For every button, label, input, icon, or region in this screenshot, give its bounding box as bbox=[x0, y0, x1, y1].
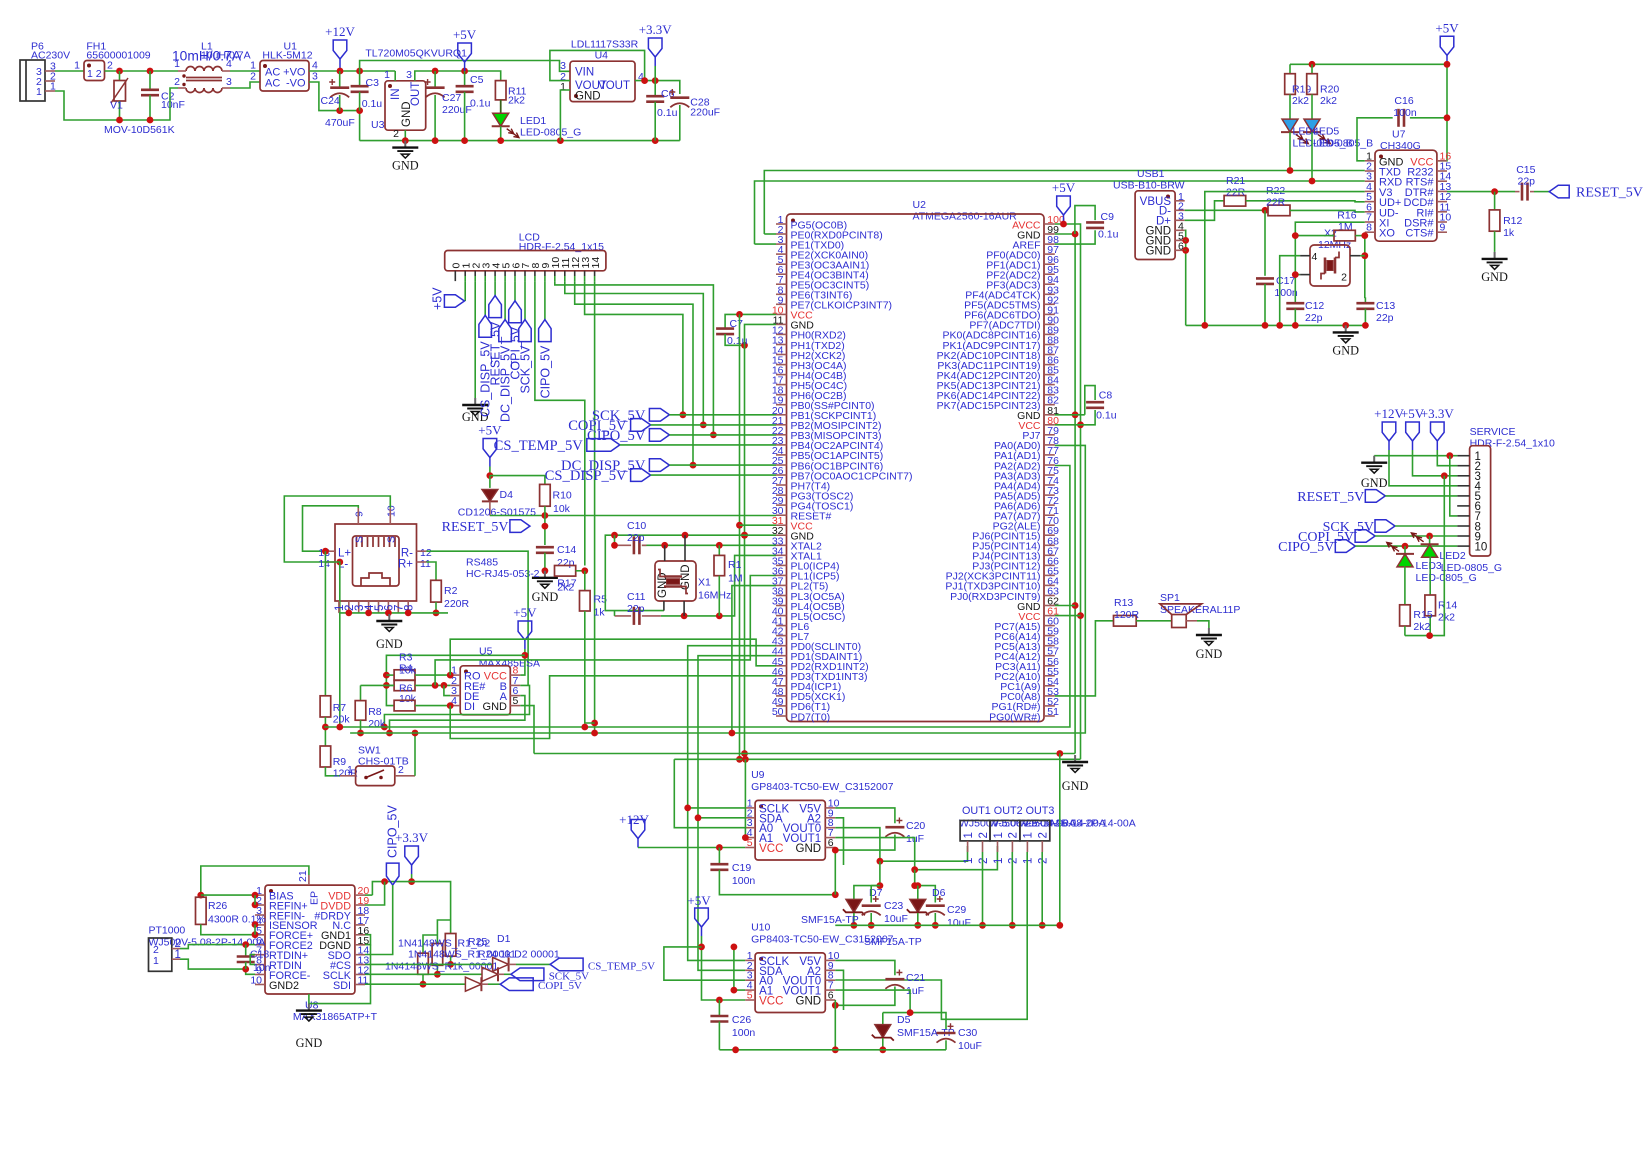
wire U9 A2 stub bbox=[835, 818, 843, 865]
capacitor C10 22p bbox=[633, 536, 636, 554]
fuse FH1 65600001009 bbox=[84, 61, 105, 81]
wire +5V to R10 bbox=[490, 476, 545, 485]
capacitor C17 100n bbox=[1264, 210, 1266, 275]
wire -VO to dc ground rail bbox=[309, 82, 360, 141]
capacitor C16 100n bbox=[1357, 118, 1393, 161]
svg-text:-VO: -VO bbox=[286, 78, 306, 90]
svg-text:GND: GND bbox=[1361, 476, 1388, 490]
wire R13 to SP1 bbox=[1136, 620, 1172, 622]
wire L1.3 to U1.2 bbox=[230, 82, 260, 88]
wire +3.3V to VDD DVDD bbox=[372, 882, 450, 934]
svg-text:2: 2 bbox=[1038, 858, 1050, 864]
wire VOUT0 to OUT1.1 bbox=[835, 828, 967, 862]
svg-text:C10: C10 bbox=[627, 520, 646, 532]
wire +5V to U10 VCC bbox=[702, 936, 746, 1000]
svg-text:R8: R8 bbox=[368, 706, 382, 718]
svg-text:100n: 100n bbox=[1393, 107, 1417, 119]
resistor R10 10k bbox=[540, 484, 551, 506]
svg-text:VCC: VCC bbox=[759, 996, 783, 1008]
wire L- down to bus bbox=[325, 562, 339, 727]
svg-text:GND: GND bbox=[1332, 343, 1359, 357]
svg-text:50: 50 bbox=[772, 706, 784, 718]
svg-text:10uF: 10uF bbox=[947, 917, 971, 929]
power flag +5V usb bbox=[1446, 55, 1448, 64]
svg-text:GND: GND bbox=[376, 637, 403, 651]
wire bus bottom PA0 bbox=[350, 445, 1085, 733]
flag CS_DISP_5V to PB7 bbox=[631, 469, 651, 482]
svg-text:C23: C23 bbox=[884, 900, 903, 912]
wire VOUT0 to D7/C23 bbox=[854, 861, 880, 899]
svg-text:C13: C13 bbox=[1376, 300, 1395, 312]
svg-text:1: 1 bbox=[175, 949, 181, 961]
svg-text:LED-0805_G: LED-0805_G bbox=[1416, 572, 1477, 584]
svg-text:LED-0805_B: LED-0805_B bbox=[1313, 138, 1373, 150]
wire RO route to MCU PD2 bbox=[450, 639, 776, 675]
wire service pin3 +5V bbox=[1413, 450, 1458, 476]
svg-text:3: 3 bbox=[406, 69, 412, 81]
wire P6.3 to FH1 bbox=[55, 70, 84, 72]
LED1 LED-0805_G bbox=[500, 100, 502, 114]
flag +5V lcd pin1 bbox=[464, 281, 466, 301]
svg-text:C11: C11 bbox=[627, 591, 646, 603]
svg-text:EP: EP bbox=[309, 891, 321, 905]
svg-text:HLK-5M12: HLK-5M12 bbox=[262, 50, 312, 62]
wire VCC vertical left bbox=[739, 314, 741, 759]
svg-text:X1: X1 bbox=[698, 577, 711, 589]
wire C15 to RESET_5V flag bbox=[1534, 191, 1549, 193]
wire lcd pin14 straight down to bus bbox=[594, 281, 596, 733]
wire +12V feed to U4 VIN bbox=[360, 61, 570, 72]
svg-text:100n: 100n bbox=[732, 875, 756, 887]
svg-text:U4: U4 bbox=[595, 50, 609, 62]
svg-text:+5V: +5V bbox=[1052, 180, 1076, 195]
flag CIPO_5V service bbox=[1335, 540, 1355, 553]
ground under R12 bbox=[1494, 252, 1496, 259]
crystal X1 body bbox=[655, 561, 696, 601]
svg-text:SERVICE: SERVICE bbox=[1470, 426, 1516, 438]
SERVICE pin 2 bbox=[1457, 465, 1469, 467]
svg-text:VCC: VCC bbox=[759, 843, 783, 855]
svg-text:2k2: 2k2 bbox=[557, 582, 574, 594]
svg-text:R21: R21 bbox=[1226, 175, 1245, 187]
svg-text:C5: C5 bbox=[470, 74, 484, 86]
svg-text:R16: R16 bbox=[1337, 210, 1356, 222]
RJ45 bottom pins 1-8 bbox=[338, 601, 340, 613]
resistor R19 2k2 bbox=[1289, 64, 1291, 73]
svg-text:SDI: SDI bbox=[333, 980, 351, 992]
svg-text:20k: 20k bbox=[368, 718, 386, 730]
wire +12V to U9 VCC bbox=[638, 847, 745, 849]
power flag +12V u9 bbox=[637, 839, 639, 848]
svg-text:+5V: +5V bbox=[431, 287, 445, 310]
svg-text:1: 1 bbox=[1023, 858, 1035, 864]
svg-text:GND: GND bbox=[1481, 270, 1508, 284]
LED2 green bbox=[1429, 536, 1431, 544]
svg-text:GP8403-TC50-EW_C3152007: GP8403-TC50-EW_C3152007 bbox=[751, 781, 894, 793]
svg-text:CIPO_5V: CIPO_5V bbox=[1278, 540, 1334, 555]
resistor R7 20k bbox=[320, 696, 331, 717]
wire +5V rail to LEDs bbox=[1437, 64, 1447, 161]
svg-text:2k2: 2k2 bbox=[1413, 621, 1430, 633]
svg-text:3: 3 bbox=[312, 71, 318, 83]
capacitor C24 470uF bbox=[339, 71, 341, 87]
gnd bus u9 cluster bbox=[835, 924, 1060, 926]
wire RE/DE route to MCU PL1 bbox=[435, 576, 776, 686]
svg-text:14: 14 bbox=[318, 558, 330, 570]
resistor R11 2k2 bbox=[495, 81, 506, 100]
svg-text:1M: 1M bbox=[728, 573, 743, 585]
wire LED4 to TXD net bbox=[1289, 132, 1291, 170]
wire GND pin62 bbox=[1055, 605, 1075, 607]
usb ground bus bbox=[1186, 324, 1366, 326]
svg-text:0.1u: 0.1u bbox=[1096, 410, 1117, 422]
capacitor C9 0.1u bbox=[1075, 206, 1095, 234]
wire VCC pin31 bbox=[740, 524, 777, 526]
svg-text:R12: R12 bbox=[1503, 215, 1522, 227]
svg-text:22R: 22R bbox=[1266, 197, 1286, 209]
ground service bbox=[1374, 455, 1457, 457]
wire U10 V5V to C21 bbox=[835, 960, 895, 975]
resistor R14 2k2 bbox=[1429, 557, 1432, 595]
wire R12 to gnd bbox=[1494, 231, 1496, 252]
svg-text:C16: C16 bbox=[1394, 95, 1413, 107]
svg-text:4: 4 bbox=[226, 58, 232, 70]
resistor R9 120R bbox=[320, 746, 331, 767]
wire U10 VOUT1 to D5/C30 bbox=[835, 990, 910, 1013]
wire lcd pin11 staircase to COPI row bbox=[565, 281, 704, 425]
wire RTDIN+ RTDIN stubs bbox=[250, 955, 255, 965]
diode D3 1N4148WS bbox=[465, 977, 481, 991]
svg-text:R15: R15 bbox=[1413, 609, 1432, 621]
svg-text:CS_TEMP_5V: CS_TEMP_5V bbox=[494, 438, 584, 454]
capacitor C2 10nF bbox=[149, 71, 151, 90]
svg-text:10k: 10k bbox=[399, 665, 417, 677]
flag RESET_5V mid bbox=[510, 520, 530, 533]
wire U3.3 OUT to +5V rail bbox=[415, 71, 501, 81]
svg-text:CIPO_5V: CIPO_5V bbox=[538, 345, 552, 398]
ground bbox=[404, 141, 406, 148]
resistor R8 20k bbox=[360, 685, 362, 700]
svg-text:51: 51 bbox=[1047, 706, 1059, 718]
capacitor C29 10uF bbox=[926, 904, 945, 907]
resistor R13 120R bbox=[1114, 616, 1137, 627]
svg-text:U10: U10 bbox=[751, 921, 770, 933]
svg-text:GND: GND bbox=[1196, 647, 1223, 661]
resistor R22 22R bbox=[1268, 205, 1290, 216]
flag RESET_5V lcd pin4 bbox=[494, 281, 496, 296]
svg-text:22p: 22p bbox=[557, 557, 575, 569]
resistor R26 4300R 0.1% bbox=[196, 897, 207, 924]
svg-text:0.1u: 0.1u bbox=[657, 107, 678, 119]
LED3 green bbox=[1404, 546, 1406, 554]
ground rj45 bbox=[388, 614, 390, 621]
svg-text:R25: R25 bbox=[468, 936, 487, 948]
svg-text:PG0(WR#): PG0(WR#) bbox=[989, 711, 1040, 723]
wire U9 A0 strap bbox=[674, 759, 745, 827]
ground under C14 bbox=[544, 571, 546, 578]
svg-text:22p: 22p bbox=[1518, 176, 1536, 188]
wire GND1 DGND tie bbox=[365, 935, 371, 945]
module U1 HLK-5M12 bbox=[260, 61, 309, 92]
svg-text:1k: 1k bbox=[594, 607, 606, 619]
wire VOUT to C6/C28 bbox=[645, 81, 680, 94]
svg-text:CIPO_5V: CIPO_5V bbox=[587, 428, 646, 444]
wire U5 A hook to bus bbox=[390, 696, 525, 733]
wire R21 to UD+ bbox=[1246, 201, 1365, 202]
resistor R15 2k2 bbox=[1404, 567, 1406, 605]
svg-text:2: 2 bbox=[978, 858, 990, 864]
svg-text:1: 1 bbox=[993, 832, 1005, 838]
resistor R3 10k bbox=[386, 674, 394, 676]
svg-text:XO: XO bbox=[1379, 228, 1395, 240]
svg-text:+12V: +12V bbox=[325, 24, 355, 39]
svg-text:1: 1 bbox=[384, 69, 390, 81]
wire DE tie to RE bbox=[444, 685, 450, 695]
svg-text:2: 2 bbox=[1038, 832, 1050, 838]
power flag +5V mcu bbox=[1063, 215, 1065, 224]
power flag +3.3V bbox=[654, 57, 656, 66]
wire service pin4 +12V bbox=[1389, 450, 1457, 486]
svg-text:10: 10 bbox=[386, 505, 398, 517]
svg-text:1: 1 bbox=[1023, 832, 1035, 838]
svg-text:220R: 220R bbox=[444, 598, 470, 610]
svg-text:0.1u: 0.1u bbox=[1098, 229, 1119, 241]
svg-text:R14: R14 bbox=[1438, 600, 1457, 612]
capacitor C11 22p bbox=[633, 607, 636, 625]
svg-text:1: 1 bbox=[174, 58, 180, 70]
svg-text:1: 1 bbox=[963, 832, 975, 838]
svg-text:120R: 120R bbox=[1114, 609, 1140, 621]
flag DC_DISP_5V lcd pin5 bbox=[504, 281, 506, 320]
wire U4.1 GND bbox=[560, 90, 570, 141]
svg-text:LED-0805_G: LED-0805_G bbox=[520, 127, 581, 139]
svg-text:RESET_5V: RESET_5V bbox=[1297, 490, 1364, 505]
wire U10 A0 strap bbox=[664, 947, 745, 980]
svg-text:16MHz: 16MHz bbox=[698, 590, 731, 602]
wire GND vertical left bbox=[745, 324, 777, 753]
SERVICE pin 4 bbox=[1457, 485, 1469, 487]
svg-text:GND: GND bbox=[401, 101, 413, 127]
SERVICE pin 6 bbox=[1457, 505, 1469, 507]
SERVICE pin 1 bbox=[1457, 455, 1469, 457]
wire PT1000.2 to FORCE2 bbox=[180, 945, 255, 949]
svg-text:1: 1 bbox=[347, 764, 353, 776]
resistor R17 2k2 bbox=[555, 566, 576, 577]
resistor R25 1k bbox=[445, 934, 456, 957]
svg-text:5: 5 bbox=[747, 990, 753, 1002]
svg-text:65600001009: 65600001009 bbox=[86, 50, 150, 62]
svg-text:0.1u: 0.1u bbox=[470, 98, 491, 110]
svg-text:HDR-F-2.54_1x10: HDR-F-2.54_1x10 bbox=[1470, 438, 1555, 450]
svg-text:+5V: +5V bbox=[513, 605, 537, 620]
svg-text:6: 6 bbox=[828, 837, 834, 849]
LED5 blue bbox=[1311, 94, 1313, 119]
diode D1 1N4148WS bbox=[493, 957, 509, 971]
LED4 blue bbox=[1289, 94, 1291, 119]
svg-text:LED5: LED5 bbox=[1313, 126, 1339, 138]
diode D6 SMF15A-TP bbox=[910, 899, 926, 912]
svg-text:R24 1k D2 00001: R24 1k D2 00001 bbox=[478, 949, 560, 961]
capacitor C8 0.1u bbox=[1085, 386, 1095, 415]
svg-text:R+: R+ bbox=[398, 559, 413, 571]
wire L+ down to R7 bbox=[324, 551, 326, 696]
wire XO net down bbox=[1364, 232, 1366, 298]
wire gnd drop from busC bbox=[1059, 754, 1061, 926]
svg-text:IN: IN bbox=[390, 89, 402, 101]
svg-text:1: 1 bbox=[963, 858, 975, 864]
wire DI route to MCU PD3 bbox=[450, 676, 776, 739]
svg-text:1: 1 bbox=[993, 858, 1005, 864]
wire USB GND tie bbox=[1185, 230, 1186, 325]
svg-text:SMF15A-TP: SMF15A-TP bbox=[801, 914, 859, 926]
rj45 ground bus bbox=[339, 612, 448, 614]
capacitor C3 0.1u bbox=[359, 71, 361, 86]
wire reset net to MCU pin30 bbox=[490, 515, 776, 517]
svg-text:+5V: +5V bbox=[687, 893, 711, 908]
diode D5 SMF15A-TP bbox=[882, 1013, 884, 1025]
wire U10 GND vertical bbox=[834, 1000, 836, 1050]
svg-text:10: 10 bbox=[1475, 541, 1488, 553]
wire DTR# to C15/R12 bbox=[1447, 191, 1515, 193]
svg-text:2: 2 bbox=[107, 60, 113, 72]
svg-text:GND: GND bbox=[532, 590, 559, 604]
power flag +5V u10 bbox=[701, 927, 703, 936]
wire V3 net down bbox=[1205, 192, 1365, 326]
svg-text:SCK_5V: SCK_5V bbox=[519, 345, 533, 394]
svg-text:0.1u: 0.1u bbox=[362, 98, 383, 110]
svg-text:2: 2 bbox=[398, 764, 404, 776]
wire U10 A2 stub bbox=[835, 970, 843, 1010]
svg-text:VIN: VIN bbox=[575, 67, 594, 79]
svg-text:RESET_5V: RESET_5V bbox=[442, 520, 509, 535]
U8 EP pin 21 bbox=[308, 875, 310, 885]
svg-text:V1: V1 bbox=[110, 100, 123, 112]
svg-text:21: 21 bbox=[297, 870, 309, 882]
svg-text:D5: D5 bbox=[897, 1014, 911, 1026]
svg-text:PT1000: PT1000 bbox=[149, 925, 186, 937]
svg-text:2k2: 2k2 bbox=[1292, 95, 1309, 107]
wire OUT3.1 long to U10 VOUT0 bbox=[835, 852, 1027, 1019]
svg-text:D4: D4 bbox=[500, 489, 514, 501]
wire U4 VOUT loop bbox=[550, 50, 645, 80]
svg-text:10k: 10k bbox=[399, 693, 417, 705]
svg-text:U3: U3 bbox=[371, 119, 385, 131]
wire PT1000.1 to FORCE- bbox=[180, 959, 255, 974]
capacitor C13 22p bbox=[1364, 298, 1367, 303]
svg-text:2: 2 bbox=[393, 128, 399, 140]
wire R26 bottom to FORCE lines bbox=[201, 924, 255, 934]
flag COPI_5V service bbox=[1355, 530, 1375, 543]
wire bus top PA2 bbox=[324, 466, 1070, 728]
svg-text:R26: R26 bbox=[208, 900, 227, 912]
svg-text:GND2: GND2 bbox=[269, 980, 299, 992]
wire U9 V5V to C20 bbox=[835, 808, 895, 823]
svg-text:GND: GND bbox=[1062, 779, 1089, 793]
SERVICE pin 5 bbox=[1457, 495, 1469, 497]
wire TXD long to MCU PE0 bbox=[764, 171, 1365, 235]
wire XTAL1 row bbox=[661, 555, 776, 616]
ground rail of power section bbox=[360, 140, 680, 142]
svg-text:DI: DI bbox=[464, 701, 475, 713]
svg-text:U7: U7 bbox=[1392, 129, 1406, 141]
wire AC bottom rail bbox=[55, 88, 178, 120]
power flag +5V u5 bbox=[524, 640, 526, 649]
diode D2 1N4148WS bbox=[482, 967, 498, 981]
capacitor C21 1uF bbox=[885, 978, 904, 981]
wire U1.4 +12V rail bbox=[309, 70, 395, 72]
svg-text:C8: C8 bbox=[1099, 390, 1113, 402]
SERVICE pin 10 bbox=[1457, 545, 1469, 547]
resistor R21 22R bbox=[1224, 196, 1246, 207]
svg-text:2: 2 bbox=[174, 76, 180, 88]
svg-text:R9: R9 bbox=[333, 756, 347, 768]
flag CS_DISP_5V lcd pin3 bbox=[484, 281, 486, 315]
flag RESET_5V service bbox=[1365, 490, 1385, 503]
ground sp1 bbox=[1208, 628, 1210, 635]
svg-text:X2: X2 bbox=[1324, 228, 1337, 240]
wire #CS row to D1 bbox=[365, 963, 493, 965]
svg-text:C3: C3 bbox=[366, 77, 380, 89]
svg-text:100n: 100n bbox=[1274, 287, 1298, 299]
ground usb bbox=[1345, 325, 1347, 332]
svg-text:4: 4 bbox=[1312, 251, 1318, 263]
wire SDO to CIPO flag bbox=[365, 885, 393, 954]
power flag +3.3V service bbox=[1436, 441, 1438, 450]
capacitor C28 220uF bbox=[670, 96, 689, 99]
svg-text:11: 11 bbox=[420, 558, 431, 570]
svg-text:LED3: LED3 bbox=[1416, 560, 1442, 572]
wire U3.1 IN bbox=[394, 71, 396, 81]
svg-text:GND: GND bbox=[796, 843, 822, 855]
svg-text:2k2: 2k2 bbox=[508, 94, 525, 106]
wire OUT pin2s to gnd bus bbox=[982, 852, 984, 925]
wire R22 to UD- bbox=[1290, 210, 1365, 212]
svg-text:14: 14 bbox=[590, 257, 602, 269]
svg-text:C21: C21 bbox=[906, 972, 925, 984]
svg-text:10n: 10n bbox=[253, 962, 271, 974]
flag SCK_5V lcd pin7 bbox=[524, 281, 526, 320]
svg-text:U9: U9 bbox=[751, 769, 765, 781]
svg-text:CD1206-S01575: CD1206-S01575 bbox=[458, 507, 536, 519]
wire VOUT1 to D6/C29 bbox=[915, 870, 936, 903]
svg-text:CS_TEMP_5V: CS_TEMP_5V bbox=[588, 961, 655, 973]
svg-text:C14: C14 bbox=[557, 544, 576, 556]
flag RESET_5V bbox=[1549, 185, 1569, 198]
wire VCC pin61 bbox=[1055, 615, 1081, 617]
diode D4 CD1206-S01575 bbox=[489, 476, 491, 488]
resistor R23 1k bbox=[423, 935, 437, 953]
svg-text:R20: R20 bbox=[1320, 84, 1339, 96]
flag CIPO_5V to PB3 bbox=[649, 429, 669, 442]
svg-text:R10: R10 bbox=[553, 490, 572, 502]
svg-text:3: 3 bbox=[226, 76, 232, 88]
capacitor C7 0.1u bbox=[725, 314, 776, 328]
svg-text:22p: 22p bbox=[627, 603, 645, 615]
svg-text:GND: GND bbox=[296, 1036, 323, 1050]
power flag +5V service bbox=[1412, 441, 1414, 450]
svg-text:LED1: LED1 bbox=[520, 115, 546, 127]
svg-text:GND: GND bbox=[1145, 245, 1171, 257]
wire RXD long to MCU PE1 bbox=[755, 181, 1365, 244]
svg-text:2: 2 bbox=[1008, 832, 1020, 838]
flag SCK_5V service bbox=[1375, 520, 1395, 533]
wire U3.2 GND bbox=[404, 130, 406, 140]
svg-text:S: S bbox=[386, 536, 398, 543]
wire lcd pin13 staircase to SCK row bbox=[585, 281, 683, 415]
svg-text:100n: 100n bbox=[732, 1027, 756, 1039]
wire XTAL2 row bbox=[642, 544, 776, 546]
svg-text:WJ500V-5.08-2P-14-00A: WJ500V-5.08-2P-14-00A bbox=[1019, 818, 1136, 830]
